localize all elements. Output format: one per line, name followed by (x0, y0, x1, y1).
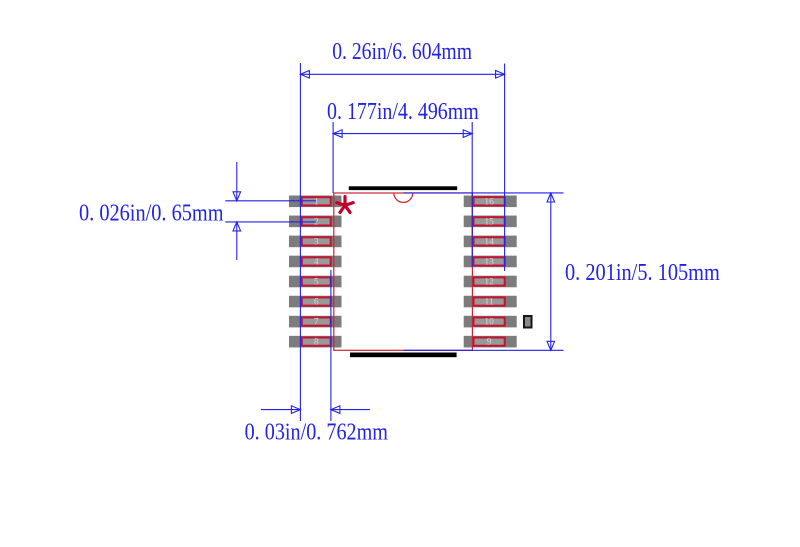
0.26in/6.604mm label (332, 39, 472, 65)
pin 6 lead (289, 296, 342, 308)
pointer line to pin 1 center (225, 200, 316, 202)
package body outline (334, 193, 473, 350)
0.026in/0.65mm label (79, 201, 224, 227)
pin 15 lead (464, 216, 517, 228)
svg-text:4: 4 (314, 257, 319, 267)
svg-text:5: 5 (314, 278, 319, 288)
0.026in pitch dimension arrows (233, 162, 241, 260)
pin 9 lead (464, 336, 517, 348)
pin number 9 (487, 338, 492, 348)
pin number 1 (314, 197, 319, 207)
pad 1 (302, 197, 331, 205)
svg-text:8: 8 (314, 338, 319, 348)
pin 13 lead (464, 256, 517, 268)
pad 8 (302, 338, 331, 346)
svg-text:1: 1 (314, 197, 319, 207)
pad 15 (474, 217, 505, 225)
pin 1 lead (289, 196, 342, 208)
svg-text:13: 13 (484, 257, 494, 267)
pin number 13 (484, 257, 494, 267)
body top extension line (403, 192, 563, 194)
pad 11 (474, 297, 505, 305)
pin number 10 (484, 318, 494, 328)
pin 3 lead (289, 236, 342, 248)
pin number 3 (314, 237, 319, 247)
svg-text:0. 177in/4. 496mm: 0. 177in/4. 496mm (327, 99, 479, 125)
svg-text:15: 15 (484, 217, 494, 227)
svg-text:0. 201in/5. 105mm: 0. 201in/5. 105mm (565, 260, 720, 286)
pin number 16 (484, 197, 494, 207)
pin number 2 (314, 217, 319, 227)
pad 6 (302, 297, 331, 305)
0.177in/4.496mm label (327, 99, 479, 125)
pin number 14 (484, 237, 494, 247)
pin 14 lead (464, 236, 517, 248)
pad 14 (474, 237, 505, 245)
pin 10 lead (464, 316, 517, 328)
svg-text:10: 10 (484, 318, 494, 328)
0.201in dimension line (547, 193, 555, 350)
pointer line to pin 2 center (225, 221, 316, 223)
pin 5 lead (289, 276, 342, 288)
pad 4 (302, 257, 331, 265)
svg-text:0. 03in/0. 762mm: 0. 03in/0. 762mm (245, 419, 389, 445)
svg-text:0. 026in/0. 65mm: 0. 026in/0. 65mm (79, 201, 224, 227)
pin number 4 (314, 257, 319, 267)
pad 13 (474, 257, 505, 265)
svg-text:6: 6 (314, 298, 319, 308)
pin1 orientation notch (394, 193, 413, 202)
extension line right of 0.177in dimension (471, 122, 473, 267)
svg-text:11: 11 (485, 298, 494, 308)
0.03in dimension left arrow line (261, 406, 301, 414)
svg-text:16: 16 (484, 197, 494, 207)
pad 16 (474, 197, 505, 205)
svg-text:3: 3 (314, 237, 319, 247)
pin 1 asterisk (337, 197, 353, 213)
pin number 15 (484, 217, 494, 227)
pin number 11 (485, 298, 494, 308)
pin number 12 (484, 278, 494, 288)
pin 4 lead (289, 256, 342, 268)
svg-text:0. 26in/6. 604mm: 0. 26in/6. 604mm (332, 39, 472, 65)
0.03in dimension right arrow line (331, 406, 370, 414)
0.177in dimension line (333, 130, 472, 138)
pin number 6 (314, 298, 319, 308)
bottom body bar (350, 353, 457, 358)
pad 3 (302, 237, 331, 245)
pad 9 (474, 338, 505, 346)
extension line left of 0.26in dimension (299, 63, 301, 421)
svg-text:14: 14 (484, 237, 494, 247)
pin 8 lead (289, 336, 342, 348)
0.03in/0.762mm label (245, 419, 389, 445)
pin 16 lead (464, 196, 517, 208)
pin number 5 (314, 278, 319, 288)
extension line right of 0.03in dimension (330, 270, 332, 421)
top body bar (349, 186, 457, 190)
extension line right of 0.26in dimension (504, 64, 506, 272)
svg-text:12: 12 (484, 278, 494, 288)
pad 5 (302, 277, 331, 285)
svg-text:7: 7 (314, 318, 319, 328)
svg-text:9: 9 (487, 338, 492, 348)
polarity mark rectangle (524, 316, 532, 328)
pin 7 lead (289, 316, 342, 328)
pad 7 (302, 318, 331, 326)
0.201in/5.105mm label (565, 260, 720, 286)
pin 2 lead (289, 216, 342, 228)
pin number 8 (314, 338, 319, 348)
pad 10 (474, 318, 505, 326)
pin number 7 (314, 318, 319, 328)
0.26in dimension line (300, 71, 504, 79)
pin 11 lead (464, 296, 517, 308)
extension line left of 0.177in dimension (332, 122, 334, 193)
pad 2 (302, 217, 331, 225)
pin 12 lead (464, 276, 517, 288)
body bottom extension line (403, 349, 563, 351)
pad 12 (474, 277, 505, 285)
